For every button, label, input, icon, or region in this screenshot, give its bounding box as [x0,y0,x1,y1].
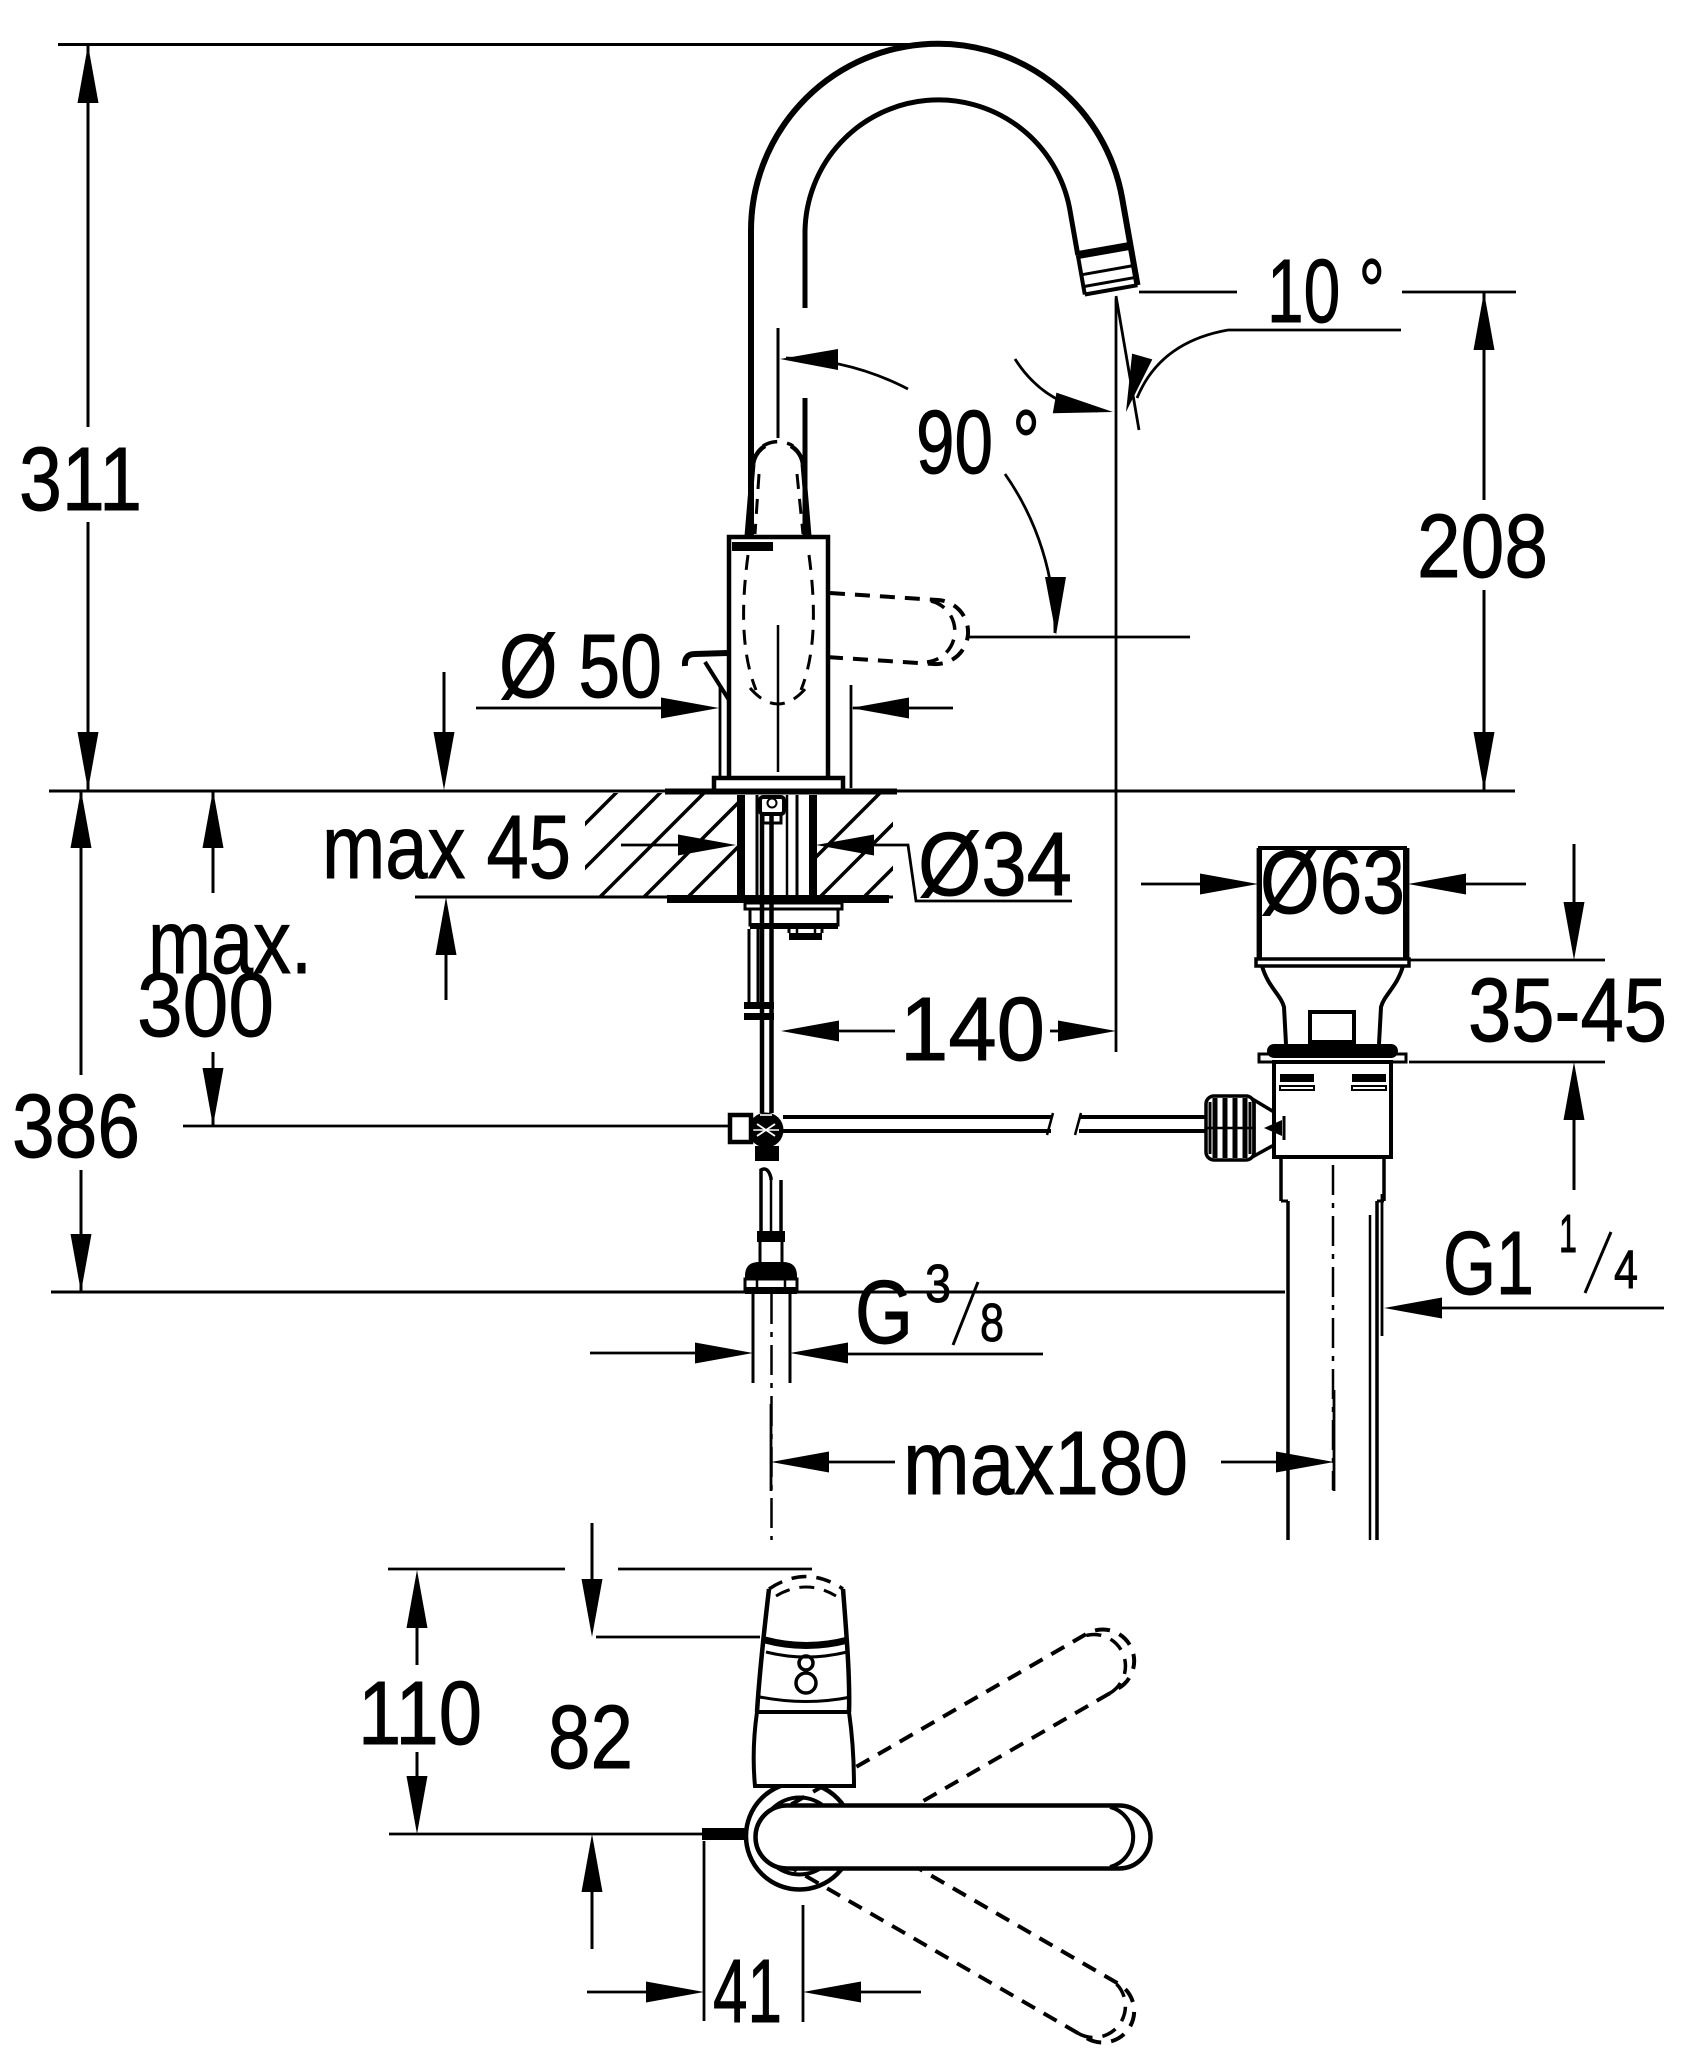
mounting washer plate [667,895,889,903]
aerator tip bottom [1085,285,1138,294]
pull rod [760,815,765,1113]
dimension 208 line [1483,292,1486,500]
svg-text:90 °: 90 ° [916,393,1040,493]
top view spout tip dashed arcs [769,1577,843,1590]
supply connection nut [745,1262,797,1279]
svg-text:8: 8 [980,1293,1004,1353]
max300 reference line [183,1125,731,1128]
drain body slot right [1352,1074,1386,1082]
spout outlet vertical reference line [1115,298,1118,1052]
shank left wall [737,795,745,895]
handle lever dome dashed top arc [763,442,793,446]
90 degree horizontal reference line [968,636,1190,639]
handle lever inner dashed right [797,474,803,534]
O50 extension lines [719,685,722,780]
dashed handle inner cap arc [927,601,955,662]
aerator tip left side [1078,255,1085,294]
pop-up rod ball joint [749,1113,784,1148]
left supply nipple [748,929,751,1002]
dimension O34 [621,844,680,847]
supply pipe collar [757,1231,785,1242]
dimension 140 [781,1021,839,1042]
svg-text:300: 300 [137,956,274,1056]
solid handle inner cap arc [1110,1807,1133,1867]
svg-text:82: 82 [548,1688,633,1788]
svg-text:41: 41 [713,1942,782,2042]
drain tailpipe [1286,1201,1290,1540]
right supply nipple [788,929,791,933]
top reference line (spout max height) [58,43,945,46]
drain taper left [1262,966,1286,1044]
body inner dashed bottom arc [750,688,806,704]
10 degree left arc [1015,359,1098,411]
drain upper cup [1260,848,1405,959]
handle lever left side [747,464,753,536]
handle lever dome right arc [791,446,803,464]
svg-text:max180: max180 [903,1414,1188,1514]
dimension 311 arrow up [78,45,99,103]
dashed horizontal handle position [826,593,968,664]
10 degree lower leader line [1228,329,1401,332]
svg-text:Ø34: Ø34 [918,815,1072,915]
body top thick bar [732,542,773,551]
svg-text:140: 140 [900,980,1045,1080]
svg-text:1: 1 [1559,1204,1577,1264]
supply hose below nut [752,1294,755,1383]
body inner center line [777,625,780,772]
drain thread section [1279,1157,1283,1201]
handle lever dome left arc [753,446,765,464]
gap in spout inner line [799,308,811,398]
drain taper right [1379,966,1403,1044]
drain pivot pin [1264,1120,1282,1136]
spout axis extension line [777,328,780,438]
top view small circles [799,1656,813,1670]
top view extension line (spout tip) [388,1568,565,1571]
dashed handle position upper [784,1629,1134,1863]
drain body slot left [1280,1074,1314,1082]
90 degree arc upper [786,358,908,389]
shank inner tube lines [756,795,759,895]
svg-text:G1: G1 [1443,1214,1534,1314]
mounting nut body [750,909,838,925]
dimension G1 1/4 [1384,1298,1442,1319]
body inner dashed left curve [744,555,756,690]
svg-text:10 °: 10 ° [1267,242,1385,342]
mounting nut upper band [745,903,842,909]
top view pivot axis line [389,1833,702,1836]
dimension 386 line [80,790,83,1075]
svg-text:4: 4 [1614,1240,1638,1300]
supply pipe below rod [761,1169,771,1231]
top view body [754,1712,854,1786]
temperature limiter pin [702,1828,748,1840]
base flange [714,778,843,791]
svg-text:208: 208 [1417,497,1548,597]
drain flange seal band [1267,1044,1398,1058]
body inner dashed right curve [801,555,813,690]
drain body [1274,1062,1391,1157]
handle lever right side [803,464,809,536]
svg-text:311: 311 [19,430,142,530]
handle lever inner dashed left [755,474,759,534]
svg-text:max 45: max 45 [322,798,571,898]
side hook [685,653,728,666]
dashed handle position lower [784,1809,1134,2043]
208 extension line at spout outlet [1139,291,1237,294]
svg-text:110: 110 [358,1664,482,1764]
drain cup lip [1256,959,1409,966]
dimension max.300 line [212,790,215,893]
top view aerator band [765,1640,848,1646]
aerator tip inner line [1083,277,1136,286]
svg-text:386: 386 [12,1077,140,1177]
counter top line thick segment [665,789,897,795]
body outline [729,537,828,778]
top view spout sides [757,1589,769,1712]
drain neck tab [1310,1012,1354,1042]
rod guide fitting [760,797,784,814]
horizontal pop-up rod to drain [783,1115,1051,1119]
dimension 110 [416,1628,419,1665]
svg-text:Ø 50: Ø 50 [499,617,662,717]
90 degree arc lower [1005,474,1055,633]
counter top line [49,790,1515,793]
drain knurled nut [1206,1096,1254,1160]
drain nut cone [1254,1100,1274,1156]
counter hatching [512,791,970,897]
solid handle top view [756,1806,1151,1869]
drain center line [1332,1165,1335,1490]
dimension 311 line [87,45,90,427]
svg-text:3: 3 [925,1254,951,1314]
aerator band thin [1081,266,1134,275]
top view extension line (aerator edge) [596,1636,760,1639]
dimension 82 [591,1523,594,1581]
lower reference line 386 [51,1291,1285,1294]
supply hose center line [770,1294,773,1540]
rod clamp block [730,1115,751,1142]
10 degree right arc [1137,330,1228,398]
svg-text:G: G [855,1263,913,1363]
counter bottom line [415,896,893,899]
top view body junction line [757,1710,849,1714]
spout outlet slanted reference line [1116,296,1139,430]
svg-text:35-45: 35-45 [1468,961,1667,1061]
dimension max180 [770,1404,773,1491]
svg-text:Ø63: Ø63 [1260,833,1405,933]
dimension 41 [703,1841,706,2021]
aerator band thick [1078,246,1131,255]
ball joint lower tab [755,1146,779,1161]
side hook strut [705,662,729,700]
dimension 311 arrow down [78,732,99,790]
mounting nut bottom edge [750,923,838,929]
top view swivel circles [746,1783,853,1890]
spout inner contour [805,100,1078,537]
dimension G 3/8 [590,1352,696,1355]
drain flange plate [1259,1054,1406,1062]
spout outer contour [751,44,1138,537]
shank right wall [809,795,817,895]
